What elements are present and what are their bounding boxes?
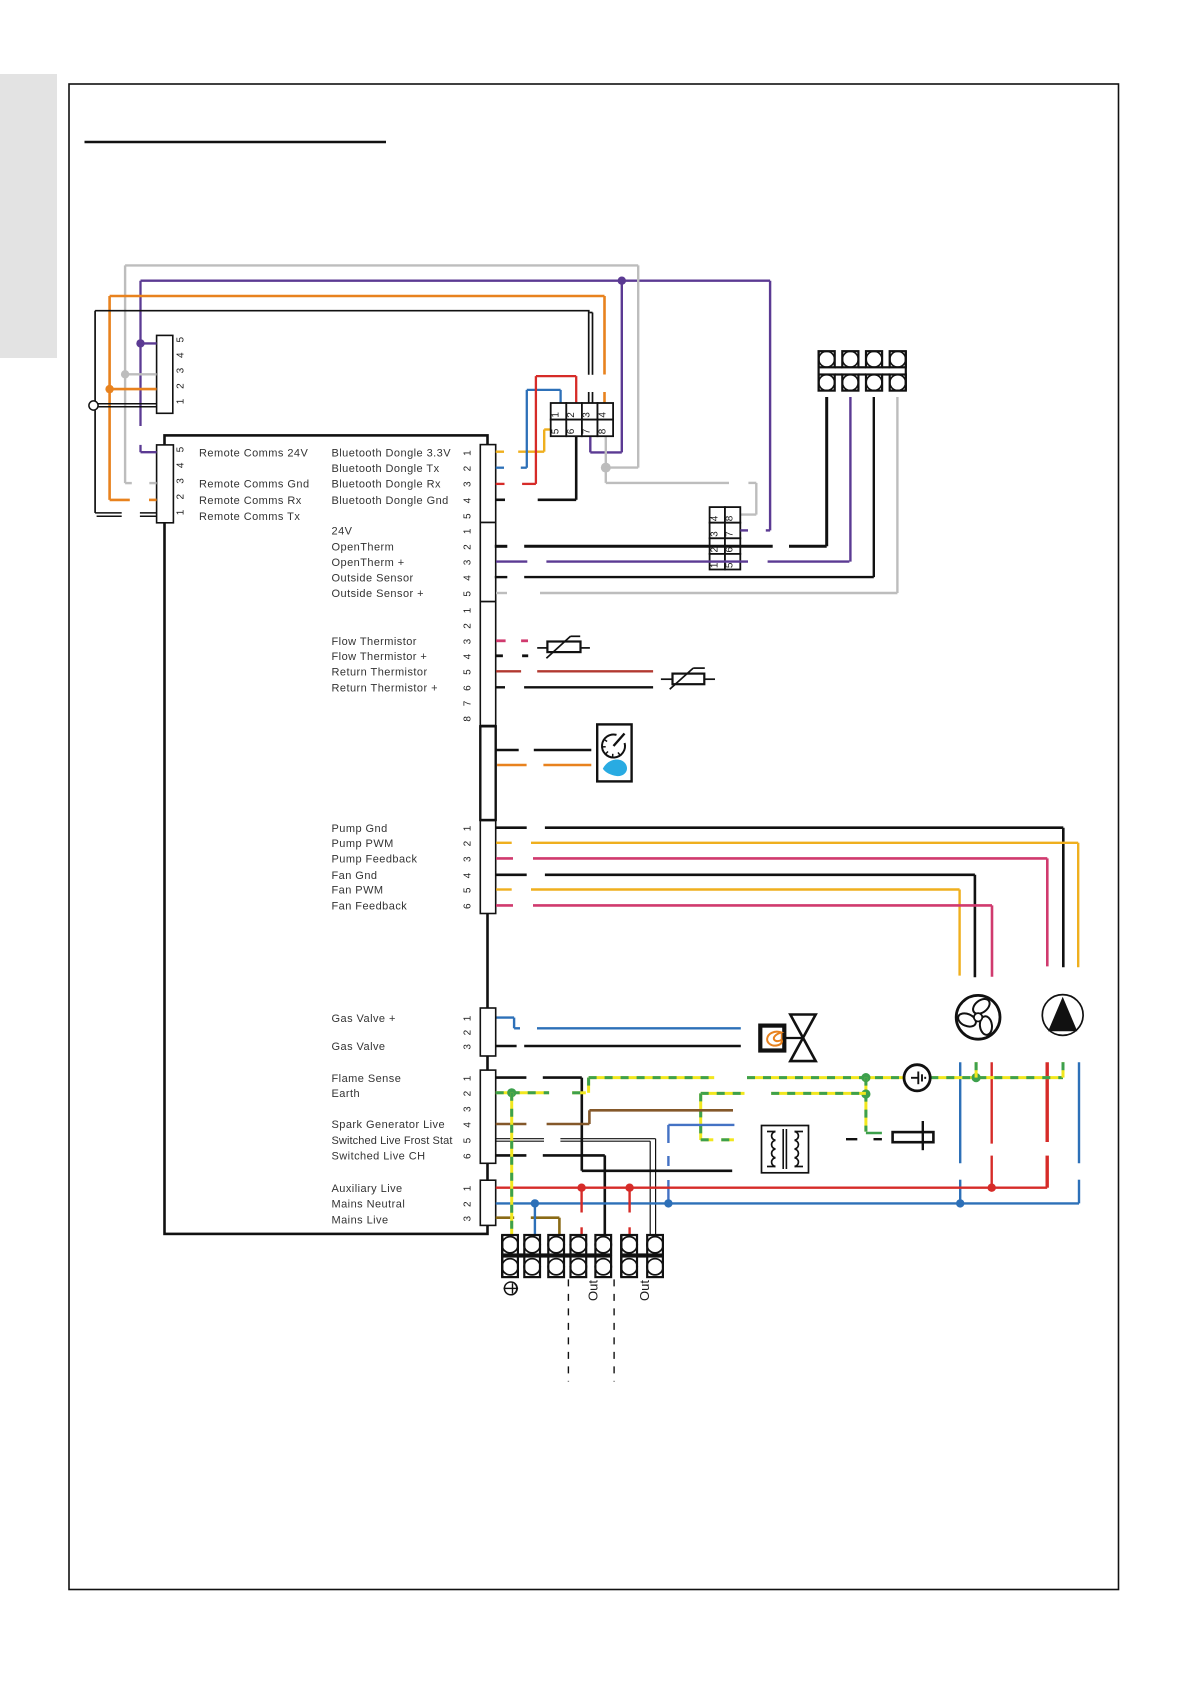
svg-text:Pump Feedback: Pump Feedback (332, 854, 418, 866)
wire red bluetooth Rx (496, 483, 505, 485)
pump M2 icon (1042, 995, 1083, 1036)
svg-text:3: 3 (463, 1044, 474, 1050)
wire red Auxiliary Live rail (496, 1186, 1047, 1188)
opentherm connector P2 body (480, 523, 495, 602)
svg-text:4: 4 (176, 462, 187, 468)
svg-text:1: 1 (176, 509, 187, 515)
wire grey riser to boiler terminal 4 (896, 397, 898, 593)
wire blue bluetooth Tx (496, 467, 504, 469)
svg-text:2: 2 (463, 623, 474, 629)
svg-text:8: 8 (463, 716, 474, 722)
wire black Outside Sensor (495, 576, 508, 578)
svg-text:Outside Sensor: Outside Sensor (332, 572, 414, 584)
svg-text:Bluetooth Dongle 3.3V: Bluetooth Dongle 3.3V (332, 448, 452, 460)
svg-text:3: 3 (463, 1106, 474, 1112)
svg-text:1: 1 (463, 450, 474, 456)
svg-text:Flow Thermistor: Flow Thermistor (332, 636, 417, 648)
svg-text:3: 3 (176, 367, 187, 373)
wire blue pump neutral (1078, 1062, 1080, 1163)
title rule (85, 141, 387, 144)
svg-text:5: 5 (551, 428, 562, 434)
wire grey from block1 cell8 (605, 436, 607, 483)
svg-text:OpenTherm +: OpenTherm + (332, 557, 405, 569)
svg-text:5: 5 (463, 513, 474, 519)
wire earth from P7 pin2 (496, 1091, 549, 1094)
svg-text:7: 7 (463, 700, 474, 706)
node earth junction at P7 pin2 (507, 1088, 516, 1097)
wire black riser to boiler terminal 3 (873, 397, 875, 577)
dashed drop line 1 (567, 1279, 569, 1381)
node grey junction (601, 463, 611, 473)
wire red pump live (1045, 1062, 1048, 1142)
svg-text:3: 3 (463, 559, 474, 565)
svg-text:Remote Comms 24V: Remote Comms 24V (199, 448, 309, 460)
node purple junction top (618, 277, 626, 285)
wire black riser to boiler terminal 1 (825, 397, 828, 546)
mains connector P8 body (480, 1180, 495, 1225)
svg-text:8: 8 (725, 515, 736, 521)
wire red dashed drop to terminal 4 (580, 1188, 582, 1213)
wire blue Gas Valve + (497, 1016, 515, 1018)
wire earth to terminal strip (510, 1093, 513, 1235)
wire purple from block1 cell7 (589, 436, 591, 452)
node blue junction 2 (664, 1199, 672, 1207)
svg-text:4: 4 (709, 515, 720, 521)
svg-text:Return Thermistor: Return Thermistor (332, 667, 428, 679)
svg-text:Flow Thermistor +: Flow Thermistor + (332, 651, 428, 663)
wire black OpenTherm (495, 545, 508, 548)
svg-text:Outside Sensor +: Outside Sensor + (332, 588, 425, 600)
svg-text:Pump PWM: Pump PWM (332, 838, 394, 850)
svg-text:1: 1 (176, 398, 187, 404)
main PCB board outline (165, 435, 488, 1234)
svg-text:Bluetooth Dongle Gnd: Bluetooth Dongle Gnd (332, 495, 449, 507)
svg-text:Mains Live: Mains Live (332, 1215, 389, 1227)
terminal earth symbol (504, 1282, 517, 1295)
wire black Flame Sense (496, 1076, 527, 1079)
svg-text:5: 5 (176, 446, 187, 452)
output terminal strip TB4 (502, 1235, 518, 1255)
wire black pair to J2 pin1 (95, 512, 122, 514)
flame and spark connector P7 body (480, 1070, 495, 1163)
wire black bluetooth Gnd (496, 498, 505, 501)
svg-text:4: 4 (463, 1122, 474, 1128)
wire pink Fan Feedback (496, 904, 513, 907)
svg-text:2: 2 (463, 544, 474, 550)
svg-text:1: 1 (463, 607, 474, 613)
wire purple right vertical (769, 281, 771, 531)
node earth junction fan (972, 1073, 981, 1082)
svg-text:1: 1 (463, 1185, 474, 1191)
wire grey top horizontal (125, 264, 638, 266)
svg-text:Pump Gnd: Pump Gnd (332, 823, 388, 835)
earth stub to fan (975, 1062, 978, 1077)
wire black pair drop into block1 (588, 311, 590, 375)
svg-text:5: 5 (463, 591, 474, 597)
earth run to pump area (930, 1076, 1063, 1079)
wire brown Spark Generator Live (496, 1123, 527, 1126)
earth branch left loop (701, 1092, 745, 1095)
wire dark red Return Thermistor (496, 670, 521, 672)
wire pink Flow Thermistor (496, 639, 506, 642)
node orange junction at J1 pin2 (105, 385, 113, 393)
wire purple top horizontal (141, 280, 771, 282)
node earth junction 1 (861, 1073, 870, 1082)
wire black Fan Gnd (496, 873, 527, 876)
wire blue fan neutral (959, 1062, 961, 1163)
svg-text:1: 1 (463, 1075, 474, 1081)
svg-text:4: 4 (463, 497, 474, 503)
svg-text:5: 5 (176, 337, 187, 343)
wire yellow Pump PWM (496, 842, 512, 844)
svg-text:Out: Out (585, 1280, 600, 1301)
svg-text:Bluetooth Dongle Tx: Bluetooth Dongle Tx (332, 463, 440, 475)
gas valve flame box (760, 1026, 784, 1051)
wire yellow Fan PWM (496, 888, 512, 890)
svg-text:4: 4 (597, 412, 608, 418)
svg-text:24V: 24V (332, 526, 353, 538)
svg-text:4: 4 (463, 872, 474, 878)
thermistor RT1 flow (537, 647, 547, 649)
svg-text:5: 5 (463, 669, 474, 675)
wire blue neutral drop to terminal (534, 1203, 536, 1235)
svg-text:2: 2 (463, 465, 474, 471)
wire purple 24V dashes at TB2 cell7 (740, 529, 748, 531)
terminal block TB2 2x4 vertical (710, 507, 725, 523)
wire grey up to top grey wire (606, 466, 638, 468)
svg-text:Gas Valve: Gas Valve (332, 1041, 386, 1053)
wire orange pressure sensor supply (497, 764, 526, 767)
svg-text:Gas Valve +: Gas Valve + (332, 1013, 396, 1025)
wire black Gas Valve (497, 1045, 517, 1047)
bluetooth connector P1 body (480, 445, 495, 523)
fan M1 icon (956, 995, 1000, 1039)
wire black Return Thermistor + (496, 686, 505, 688)
wire double Switched Live Frost Stat (496, 1138, 544, 1140)
loop terminal circle (89, 401, 98, 410)
pressure sensor connector P4 body (480, 726, 495, 820)
svg-text:Switched Live CH: Switched Live CH (332, 1151, 426, 1163)
svg-text:7: 7 (582, 428, 593, 434)
svg-text:3: 3 (463, 481, 474, 487)
wire black remote Tx vertical (94, 311, 96, 401)
svg-text:Earth: Earth (332, 1088, 361, 1100)
svg-text:6: 6 (463, 685, 474, 691)
svg-text:2: 2 (463, 840, 474, 846)
svg-text:OpenTherm: OpenTherm (332, 542, 395, 554)
svg-text:2: 2 (463, 1029, 474, 1035)
wire orange remote Rx vertical (108, 296, 111, 500)
svg-text:5: 5 (725, 562, 736, 568)
svg-text:7: 7 (725, 531, 736, 537)
wire pink Pump Feedback (496, 857, 513, 860)
boiler terminal strip TB3 (819, 351, 835, 367)
gas valve symbol V1 (790, 1015, 815, 1062)
svg-text:6: 6 (463, 1153, 474, 1159)
svg-text:3: 3 (463, 856, 474, 862)
fuse F1 (893, 1132, 934, 1142)
earth link to fuse (866, 1132, 882, 1135)
svg-text:Fan PWM: Fan PWM (332, 885, 384, 897)
wire purple into J1 pin5 (141, 342, 157, 344)
node grey junction at J1 pin3 (121, 370, 129, 378)
wire black Switched Live CH (496, 1154, 527, 1157)
svg-text:Switched Live Frost Stat: Switched Live Frost Stat (332, 1135, 453, 1147)
wire grey remote gnd vertical (124, 265, 126, 483)
wire orange drop into block1 (603, 296, 606, 375)
wire blue frost stat link (667, 1125, 669, 1143)
svg-text:Remote Comms Gnd: Remote Comms Gnd (199, 479, 310, 491)
page sidebar tab (0, 74, 57, 358)
wire orange into J2 pin2 (110, 499, 130, 502)
svg-text:1: 1 (463, 825, 474, 831)
svg-text:1: 1 (709, 562, 720, 568)
wire yellow bluetooth 3.3V (496, 451, 504, 453)
svg-text:2: 2 (176, 494, 187, 500)
wire black Pump Gnd (496, 826, 527, 829)
svg-text:Auxiliary Live: Auxiliary Live (332, 1183, 403, 1195)
svg-text:Fan Gnd: Fan Gnd (332, 870, 378, 882)
wire purple OpenTherm+ (496, 560, 527, 562)
svg-text:1: 1 (551, 412, 562, 418)
svg-text:3: 3 (463, 638, 474, 644)
gas valve connector P6 body (480, 1008, 495, 1056)
svg-text:6: 6 (566, 428, 577, 434)
wire purple into J2 pin5 (141, 451, 157, 453)
wire orange top horizontal (110, 295, 605, 298)
node red junction fan live (988, 1184, 996, 1192)
svg-text:Spark Generator Live: Spark Generator Live (332, 1119, 446, 1131)
svg-text:1: 1 (463, 528, 474, 534)
svg-text:Flame Sense: Flame Sense (332, 1073, 402, 1085)
svg-text:5: 5 (463, 1137, 474, 1143)
svg-text:Out: Out (637, 1280, 652, 1301)
page border frame (69, 84, 1119, 1590)
svg-text:Fan Feedback: Fan Feedback (332, 901, 408, 913)
wire red dashed drop to out terminal (628, 1188, 630, 1213)
svg-text:2: 2 (463, 1090, 474, 1096)
wire black pressure sensor signal (496, 749, 518, 752)
wire black pair to J1 pin1 (98, 403, 157, 405)
pump and fan connector P5 body (480, 821, 495, 914)
svg-text:3: 3 (463, 1216, 474, 1222)
wire grey to block2 cell8 (606, 482, 729, 484)
earth circle symbol E1 (904, 1065, 930, 1091)
svg-text:8: 8 (597, 428, 608, 434)
remote comms connector on PCB J2 body (157, 445, 174, 523)
wire red fan live (991, 1062, 993, 1143)
svg-text:Return Thermistor +: Return Thermistor + (332, 683, 438, 695)
svg-text:3: 3 (176, 478, 187, 484)
thermistor connector P3 body (480, 602, 495, 726)
svg-text:2: 2 (566, 412, 577, 418)
wire blue Mains Neutral rail (496, 1202, 1079, 1204)
svg-text:4: 4 (176, 352, 187, 358)
node red junction 1 (577, 1184, 585, 1192)
wire grey Outside Sensor+ (496, 592, 507, 594)
svg-text:4: 4 (463, 653, 474, 659)
output terminal strip TB5 (621, 1235, 637, 1255)
dashed drop line 2 (613, 1279, 615, 1381)
node red junction 2 (625, 1184, 633, 1192)
wire black Flow Thermistor + (496, 654, 503, 657)
wire grey into J2 pin3 (125, 482, 132, 484)
node blue junction fan neutral (956, 1199, 964, 1207)
svg-text:Bluetooth Dongle Rx: Bluetooth Dongle Rx (332, 479, 441, 491)
earth jog up to flame row (587, 1078, 590, 1093)
fuse F1 dashes (846, 1138, 857, 1140)
node purple junction at J1 pin5 (136, 339, 144, 347)
svg-text:Remote Comms Rx: Remote Comms Rx (199, 495, 302, 507)
thermistor RT2 return (661, 678, 673, 680)
svg-text:2: 2 (463, 1201, 474, 1207)
node blue junction 1 (531, 1199, 539, 1207)
pressure sensor S1 (597, 724, 631, 781)
svg-text:3: 3 (582, 412, 593, 418)
svg-text:6: 6 (463, 903, 474, 909)
svg-text:1: 1 (463, 1015, 474, 1021)
spark transformer T1 (762, 1126, 809, 1173)
svg-text:Mains Neutral: Mains Neutral (332, 1199, 406, 1211)
wire purple remote 24V vertical (139, 281, 141, 426)
wire orange into J1 pin2 (110, 388, 157, 391)
node earth junction 2 (861, 1089, 870, 1098)
earth stub to pump (1062, 1062, 1065, 1077)
wire olive Mains Live (496, 1216, 515, 1219)
svg-text:Remote Comms Tx: Remote Comms Tx (199, 511, 300, 523)
earth drop to junction 2 (864, 1078, 867, 1132)
wire black remote Tx top horizontal (95, 310, 589, 312)
remote display connector J1 body (157, 335, 173, 413)
svg-text:5: 5 (463, 887, 474, 893)
svg-text:3: 3 (709, 531, 720, 537)
svg-text:2: 2 (176, 383, 187, 389)
earth main run (589, 1076, 715, 1079)
svg-text:4: 4 (463, 575, 474, 581)
wire purple riser to boiler terminal 2 (849, 397, 851, 562)
terminal block TB1 2x4 (551, 403, 567, 420)
wire grey into J1 pin3 (125, 373, 157, 375)
